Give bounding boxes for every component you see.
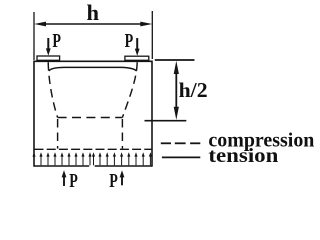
svg-text:h: h — [87, 0, 100, 25]
svg-text:P: P — [69, 170, 78, 192]
svg-text:P: P — [125, 30, 134, 52]
svg-text:P: P — [109, 170, 118, 192]
svg-text:h/2: h/2 — [179, 78, 208, 102]
svg-text:P: P — [52, 30, 61, 52]
svg-text:tension: tension — [208, 146, 278, 167]
